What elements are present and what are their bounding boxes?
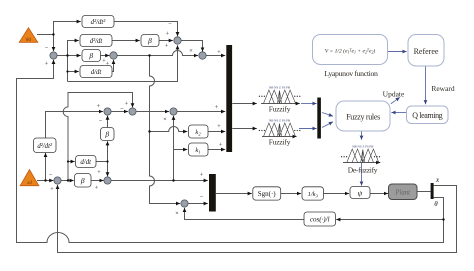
svg-text:θ: θ [434, 200, 438, 208]
svg-text:−: − [49, 172, 53, 179]
svg-text:Plant: Plant [394, 190, 411, 197]
svg-text:+: + [97, 103, 101, 110]
svg-text:+: + [45, 60, 49, 67]
svg-text:Fuzzify: Fuzzify [269, 105, 291, 114]
svg-text:β: β [104, 130, 109, 139]
svg-text:NB NS Z PS PB: NB NS Z PS PB [269, 85, 290, 89]
svg-text:−: − [99, 118, 103, 125]
svg-text:+: + [97, 169, 101, 176]
svg-text:+: + [165, 42, 169, 49]
svg-text:xd: xd [26, 181, 32, 186]
svg-text:d/dt: d/dt [91, 69, 103, 76]
svg-text:+: + [95, 185, 99, 192]
svg-text:NB NS Z PS PB: NB NS Z PS PB [352, 144, 373, 148]
svg-text:NB NS Z PS PB: NB NS Z PS PB [269, 118, 290, 122]
svg-text:β: β [147, 36, 152, 45]
svg-text:Referee: Referee [414, 47, 439, 56]
svg-text:−: − [45, 45, 49, 52]
svg-text:cos(·)/l: cos(·)/l [310, 216, 330, 224]
svg-text:Reward: Reward [431, 84, 455, 93]
svg-text:De-fuzzify: De-fuzzify [348, 166, 378, 175]
svg-text:Lyapunov function: Lyapunov function [324, 69, 378, 78]
svg-text:Sgn(·): Sgn(·) [258, 190, 277, 198]
svg-text:+: + [219, 142, 223, 149]
svg-text:β: β [80, 176, 85, 185]
svg-text:+: + [50, 186, 54, 193]
svg-text:×: × [163, 116, 167, 123]
svg-text:+: + [215, 104, 219, 111]
svg-text:d²/dt²: d²/dt² [37, 143, 53, 150]
svg-text:Q learning: Q learning [412, 111, 442, 120]
svg-text:d²/dt²: d²/dt² [91, 19, 107, 26]
svg-text:θd: θd [26, 38, 31, 43]
svg-text:+: + [106, 60, 110, 67]
svg-text:+: + [200, 172, 204, 179]
svg-text:−: − [168, 21, 172, 28]
svg-text:Fuzzy rules: Fuzzy rules [346, 112, 380, 121]
svg-text:d²/dt: d²/dt [90, 38, 104, 45]
svg-text:×: × [189, 48, 193, 55]
svg-text:−: − [200, 194, 204, 201]
svg-text:β: β [88, 51, 93, 60]
svg-text:d/dt: d/dt [80, 159, 92, 166]
svg-text:ψ: ψ [358, 188, 363, 197]
svg-text:+: + [217, 123, 221, 130]
svg-text:+: + [217, 49, 221, 56]
svg-text:Update: Update [383, 89, 405, 98]
svg-text:+: + [166, 31, 170, 38]
svg-text:×: × [175, 210, 179, 217]
svg-text:Fuzzify: Fuzzify [269, 138, 291, 147]
svg-text:−: − [120, 106, 124, 113]
svg-text:+: + [125, 101, 129, 108]
svg-text:x: x [435, 176, 440, 184]
